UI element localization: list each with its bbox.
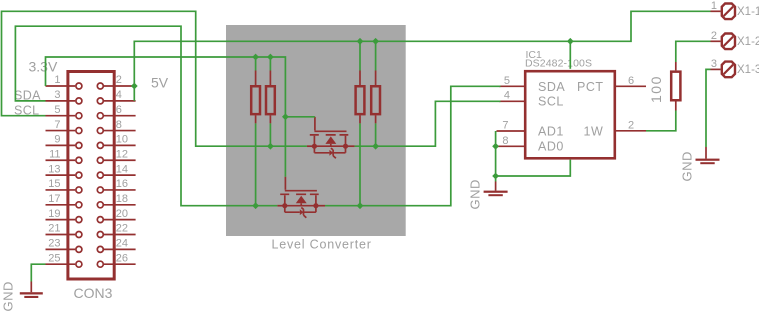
- svg-text:12: 12: [116, 148, 128, 160]
- wire R3 top lead (5V): [359, 41, 361, 70]
- junction 5V at CON3 pin2: [131, 83, 138, 90]
- svg-text:26: 26: [116, 252, 128, 264]
- CON3 pin stubs right (pins 2,4,6,8,10,12,14,16,18,20,22,24,26): [104, 86, 136, 264]
- svg-text:SCL: SCL: [538, 95, 564, 109]
- Q2 source pin stub and dot: [277, 205, 285, 207]
- svg-text:Level Converter: Level Converter: [272, 238, 372, 252]
- svg-text:8: 8: [116, 119, 122, 131]
- wire R4 bottom to SCL 5V line: [375, 123, 377, 146]
- CON3 pin stubs left (pins 1,3,5,7,9,11,13,15,17,19,21,23,25): [46, 86, 76, 264]
- wire net 5V (CON3 pin2/4 to pullups, IC and X1-1): [134, 11, 710, 101]
- svg-text:25: 25: [48, 252, 60, 264]
- svg-text:2: 2: [116, 74, 122, 86]
- resistor R5 100 ohm (1-wire): [648, 62, 680, 111]
- IC1 box outline: [525, 71, 615, 158]
- CON3 even pin numbers: [116, 74, 128, 264]
- svg-text:19: 19: [48, 208, 60, 220]
- wire 100 resistor top to X1-2: [676, 41, 711, 62]
- svg-text:5: 5: [54, 104, 60, 116]
- IC1 pin names: [538, 80, 604, 154]
- svg-text:1: 1: [711, 0, 717, 12]
- svg-text:GND: GND: [468, 179, 483, 209]
- CON3 left pin circles: [76, 83, 82, 267]
- Q2 gate bar: [285, 190, 317, 192]
- svg-text:1W: 1W: [584, 124, 604, 138]
- svg-text:6: 6: [116, 104, 122, 116]
- wire net SDA 5V side segment: [325, 86, 501, 205]
- wire Q1 gate branch: [285, 116, 315, 118]
- svg-text:7: 7: [502, 119, 508, 131]
- resistor R2 (3.3V pullup SCL): [266, 71, 275, 124]
- wire IC AD1/AD0 to GND: [495, 131, 497, 182]
- transistor Q1 (SCL level shifter MOSFET): [307, 117, 355, 159]
- Q2 channel bars: [280, 193, 319, 195]
- junction 5V to IC: [567, 38, 574, 45]
- svg-text:GND: GND: [1, 281, 16, 311]
- svg-text:21: 21: [48, 223, 60, 235]
- junction IC AD0: [492, 143, 499, 150]
- CON3 box outline: [68, 72, 114, 280]
- svg-text:6: 6: [628, 75, 634, 87]
- svg-text:18: 18: [116, 193, 128, 205]
- wire R4 top lead (5V): [375, 41, 377, 70]
- Q2 drain pin stub and dot: [316, 205, 325, 207]
- svg-text:X1-2: X1-2: [737, 36, 759, 48]
- junction IC GND node: [492, 173, 499, 180]
- wire net SDA (CON3 pin3 to level converter and IC pin5): [15, 26, 277, 206]
- IC1 pin numbers: [502, 75, 510, 147]
- svg-text:7: 7: [54, 119, 60, 131]
- svg-text:16: 16: [116, 178, 128, 190]
- Q2 bulk arrow: [296, 196, 307, 204]
- svg-text:100: 100: [648, 75, 664, 103]
- IC1 pin 2 1W stub: [616, 130, 647, 132]
- svg-text:17: 17: [48, 193, 60, 205]
- IC1 pin 4 SCL stub: [499, 100, 525, 102]
- junction R3 top: [357, 38, 364, 45]
- svg-text:8: 8: [502, 135, 508, 147]
- Q1 drain pin stub and dot: [346, 145, 355, 147]
- IC1 pin 8 AD0 stub: [497, 145, 525, 147]
- svg-text:4: 4: [116, 89, 122, 101]
- Q1 gate bar: [314, 130, 346, 132]
- junction R1 top: [252, 54, 259, 61]
- IC IC1 DS2482-100S (1-wire master): [497, 49, 647, 158]
- svg-text:9: 9: [54, 134, 60, 146]
- svg-text:14: 14: [116, 163, 128, 175]
- IC1 pin 6 PCT stub: [616, 85, 647, 87]
- resistor R1 (3.3V pullup SDA): [251, 71, 260, 124]
- svg-text:11: 11: [49, 148, 60, 160]
- CON3 right pin circles: [97, 83, 103, 267]
- junction R3 bottom: [357, 202, 364, 209]
- svg-text:5: 5: [504, 75, 510, 87]
- svg-text:DS2482-100S: DS2482-100S: [525, 58, 592, 70]
- svg-text:2: 2: [628, 119, 634, 131]
- IC1 pin 7 AD1 stub: [497, 130, 525, 132]
- ground symbol at X1-3: [680, 147, 720, 182]
- connector CON3: [46, 72, 136, 302]
- IC1 pin 5 SDA stub: [499, 85, 525, 87]
- wire 5V to IC VCC riser: [569, 41, 571, 69]
- level converter frame (gray group box): [226, 25, 406, 236]
- Q1 channel bars: [310, 134, 349, 136]
- junction Q1 gate branch: [282, 113, 289, 120]
- svg-text:CON3: CON3: [74, 285, 113, 301]
- wire CON3 pin25 to GND: [31, 264, 45, 281]
- svg-text:AD0: AD0: [538, 140, 564, 154]
- svg-text:24: 24: [116, 238, 128, 250]
- wire R1 bottom to SDA line: [255, 123, 257, 205]
- svg-text:GND: GND: [680, 151, 695, 181]
- svg-text:13: 13: [48, 163, 60, 175]
- wire R3 bottom to SDA 5V line: [359, 123, 361, 205]
- svg-text:3: 3: [54, 89, 60, 101]
- svg-text:5V: 5V: [151, 75, 169, 91]
- ground symbol at IC1 AD pins: [468, 179, 508, 209]
- svg-text:X1-3: X1-3: [737, 64, 759, 76]
- terminal X1-2: [711, 30, 759, 49]
- wire R2 bottom to SCL line: [269, 123, 271, 146]
- junction R1 bottom: [252, 202, 259, 209]
- svg-text:20: 20: [116, 208, 128, 220]
- svg-text:10: 10: [116, 134, 128, 146]
- wire R2 top lead (3.3V): [269, 57, 271, 71]
- svg-text:3.3V: 3.3V: [29, 59, 58, 75]
- Q2 body diode: [285, 206, 316, 213]
- Q1 bulk arrow: [325, 136, 336, 144]
- wire X1-3 to GND: [706, 69, 711, 147]
- svg-text:SDA: SDA: [538, 80, 565, 94]
- junction R4 bottom: [372, 143, 379, 150]
- wire net SCL (CON3 pin5 to level converter and IC pin4): [2, 11, 307, 146]
- wire R1 top lead (3.3V): [255, 57, 257, 71]
- wire 1W to 100 resistor: [646, 111, 676, 131]
- svg-text:4: 4: [504, 90, 510, 102]
- wire net 3.3V (CON3 pin1 to pullups and MOSFET gates): [46, 57, 286, 177]
- wire IC GND pin riser: [496, 160, 571, 176]
- svg-text:22: 22: [116, 223, 128, 235]
- resistor R3 (5V pullup SDA): [356, 71, 365, 124]
- terminal X1-1: [711, 0, 759, 19]
- CON3 odd pin numbers: [48, 74, 60, 264]
- svg-text:PCT: PCT: [577, 80, 604, 94]
- Q2 gate lead: [284, 177, 286, 190]
- junction R4 top: [372, 38, 379, 45]
- svg-text:15: 15: [48, 178, 60, 190]
- Q1 body diode: [314, 146, 345, 153]
- svg-text:23: 23: [48, 238, 60, 250]
- transistor Q2 (SDA level shifter MOSFET): [277, 177, 325, 218]
- Q2 source/drain leads: [285, 195, 316, 206]
- wire net SCL 5V side segment: [355, 101, 501, 146]
- ground symbol at CON3 pin25: [1, 281, 43, 311]
- svg-text:AD1: AD1: [538, 124, 564, 138]
- junction R2 bottom: [267, 143, 274, 150]
- svg-text:2: 2: [711, 30, 717, 42]
- Q1 gate lead: [314, 117, 316, 131]
- svg-text:3: 3: [711, 58, 717, 70]
- Q1 source pin stub and dot: [307, 145, 315, 147]
- junction R2 top: [267, 54, 274, 61]
- svg-text:X1-1: X1-1: [737, 6, 759, 18]
- Q1 source/drain leads: [314, 136, 345, 146]
- svg-text:1: 1: [54, 74, 60, 86]
- terminal X1-3: [711, 58, 759, 77]
- resistor R4 (5V pullup SCL): [371, 71, 380, 124]
